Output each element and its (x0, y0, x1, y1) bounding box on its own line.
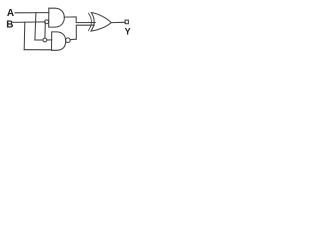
svg-text:Y: Y (125, 26, 131, 36)
svg-text:B: B (6, 20, 13, 31)
svg-text:A: A (7, 8, 14, 19)
